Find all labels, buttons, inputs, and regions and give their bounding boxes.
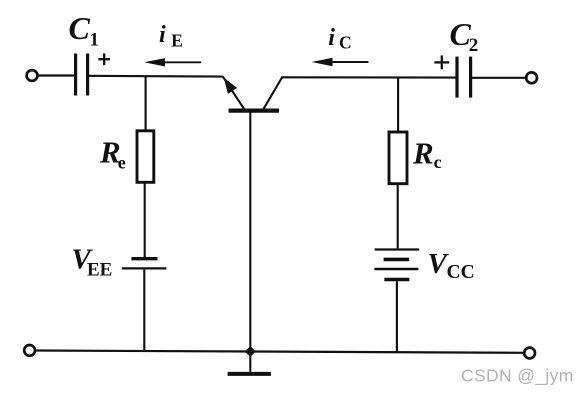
- wire C2 to terminal: [472, 77, 526, 79]
- terminal bottom right: [524, 348, 535, 359]
- wire C1 to emitter: [89, 75, 223, 78]
- battery VCC plate 4 short: [384, 278, 409, 281]
- transistor Q1 collector lead: [264, 78, 282, 109]
- svg-text:C: C: [69, 10, 91, 46]
- wire terminal to C1: [38, 74, 74, 76]
- capacitor C2 polarity plus: [434, 61, 449, 63]
- battery VCC plate 3 long: [374, 268, 418, 270]
- terminal output right top: [526, 72, 537, 83]
- wire VCC to bottom rail: [396, 281, 398, 353]
- svg-text:CC: CC: [447, 262, 475, 283]
- node C junction wire down: [397, 78, 399, 133]
- ground bar: [228, 372, 271, 376]
- svg-text:C: C: [339, 33, 352, 53]
- svg-text:1: 1: [90, 30, 100, 51]
- svg-text:c: c: [434, 152, 442, 172]
- bottom rail wire: [35, 351, 524, 353]
- transistor Q1 emitter lead: [223, 77, 244, 109]
- svg-text:i: i: [328, 25, 335, 51]
- ground stem: [249, 352, 251, 372]
- battery VEE long plate: [122, 267, 166, 269]
- current iC arrow: [325, 61, 369, 63]
- svg-text:EE: EE: [87, 259, 112, 280]
- battery VCC plate 1 long: [375, 248, 420, 250]
- junction node base-rail: [245, 346, 256, 357]
- current iE arrow: [158, 61, 201, 63]
- transistor Q1 emitter arrowhead: [224, 78, 237, 94]
- resistor Rc body: [389, 132, 407, 184]
- svg-text:R: R: [412, 135, 434, 170]
- node E junction wire down: [145, 76, 147, 131]
- resistor Re body: [137, 131, 154, 183]
- wire Re to VEE: [144, 182, 146, 257]
- wire VEE to bottom rail: [143, 270, 145, 352]
- capacitor C1 polarity plus: [98, 58, 110, 60]
- battery VEE short plate: [131, 257, 157, 260]
- svg-text:i: i: [159, 22, 166, 48]
- terminal input left top: [27, 70, 38, 81]
- transistor Q1 base bar: [229, 108, 279, 112]
- svg-text:e: e: [118, 153, 126, 173]
- capacitor C1 plates: [74, 54, 77, 96]
- terminal bottom left: [24, 345, 35, 356]
- wire base down: [249, 113, 251, 352]
- capacitor C2 plates: [455, 57, 458, 98]
- battery VCC plate 2 short: [384, 258, 409, 262]
- wire collector to C2: [281, 76, 456, 78]
- wire Rc to VCC: [397, 184, 399, 249]
- svg-text:E: E: [171, 30, 183, 50]
- svg-text:2: 2: [469, 35, 479, 56]
- svg-text:CSDN @_jym: CSDN @_jym: [461, 366, 574, 387]
